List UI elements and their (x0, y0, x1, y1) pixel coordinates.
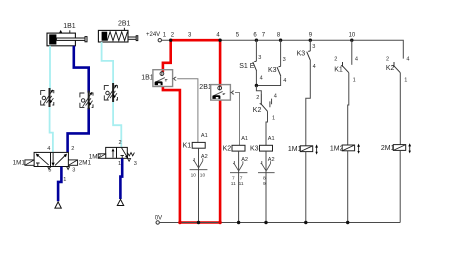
svg-text:4: 4 (47, 146, 50, 152)
svg-text:1: 1 (353, 77, 356, 83)
switch S1 contact arm (253, 61, 257, 71)
wire: relay K1 coil to 0V rail (198, 148, 200, 222)
wire: node down-right to contact K2 pin 2 (256, 86, 261, 95)
junction dot col9 (309, 39, 312, 42)
wire: relay K2 coil to 0V rail (238, 151, 240, 222)
cylinder 2B1 rod end plate (136, 36, 138, 41)
valve 1V (5/2-way double solenoid) body (34, 152, 68, 166)
svg-text:A1: A1 (201, 133, 208, 139)
solenoid coil 2M1 box (393, 145, 405, 151)
valve 2V exhaust triangle port 3 (128, 159, 131, 162)
svg-text:A2: A2 (201, 154, 208, 160)
svg-text:2B1: 2B1 (199, 84, 212, 91)
svg-text:1B1: 1B1 (63, 23, 76, 30)
svg-text:0V: 0V (155, 215, 162, 221)
tube cyan: throttle V3 down to valve 2V port 2 (113, 100, 121, 147)
valve 1V right solenoid 2M1 (68, 160, 77, 165)
svg-text:5: 5 (48, 168, 51, 174)
cylinder 1B1 label anchor stub (69, 30, 71, 33)
red wire: rail segment col2 to col4 (171, 39, 220, 42)
cylinder 2B1 piston rod (128, 37, 137, 39)
red wire: col4 down to sensor 2B1 plus (219, 40, 222, 86)
junction dot 0V K1 (197, 221, 200, 224)
svg-text:2: 2 (119, 140, 122, 146)
contact K3 col8 arm (277, 66, 281, 76)
wire: contact K1 common down to solenoid 1M2 (348, 73, 349, 145)
svg-text:8: 8 (263, 176, 266, 182)
relay coil K3 box (260, 145, 273, 151)
svg-text:K1: K1 (183, 143, 192, 150)
svg-text:4: 4 (283, 78, 286, 84)
svg-text:K2: K2 (253, 107, 262, 114)
valve 2V return spring (127, 153, 134, 156)
compressed air supply triangle 2 (117, 199, 123, 205)
contact K1 changeover arm (343, 66, 349, 73)
wire: contact K2 common down to solenoid 2M1 (399, 73, 401, 145)
junction dot 0V red left (178, 221, 181, 224)
wire: contact K3 col8 down and left to S1 node (256, 76, 280, 85)
svg-text:3: 3 (258, 55, 261, 61)
svg-text:2: 2 (386, 56, 389, 62)
cylinder 2B1 body (98, 30, 128, 42)
svg-text:2M1: 2M1 (381, 145, 395, 152)
valve 1V right square flow arrow port1 to port2 (55, 155, 66, 165)
wire: contact K3 col9 down to solenoid 1M1 (306, 61, 311, 146)
valve 2V left square vertical arrow (112, 151, 114, 158)
contact K1 changeover pin4 wire (351, 40, 353, 65)
relay K2 contact assignment symbol (233, 161, 243, 171)
throttle check valve V2 (80, 90, 93, 109)
svg-text:10: 10 (200, 173, 206, 179)
junction node S1/K3 (255, 84, 258, 87)
svg-text:7: 7 (240, 176, 243, 182)
svg-text:2: 2 (334, 56, 337, 62)
contact K2 right changeover arm (394, 66, 400, 73)
relay coil K2 box (232, 145, 245, 151)
contact K1 changeover pin2 stub (341, 62, 343, 66)
svg-text:K3: K3 (268, 67, 277, 74)
svg-text:2: 2 (71, 146, 74, 152)
svg-text:11: 11 (239, 181, 244, 187)
compressed air supply triangle 1 (55, 202, 61, 208)
junction dot 0V red right (218, 221, 221, 224)
svg-text:3: 3 (72, 168, 75, 174)
tube navy: throttle V2 down to valve 1V port 2 (68, 108, 89, 153)
svg-text:4: 4 (274, 94, 277, 100)
svg-text:1: 1 (404, 77, 407, 83)
svg-text:K1: K1 (334, 66, 343, 73)
valve 1V exhaust triangle port 3 (67, 167, 70, 170)
sensor 1B1 contact arm (156, 78, 165, 82)
sensor 1B1 output dashes (165, 80, 168, 81)
svg-text:1: 1 (272, 116, 275, 122)
wire: solenoid 2M1 to 0V rail (399, 150, 401, 222)
svg-text:K2: K2 (386, 65, 395, 72)
svg-text:1: 1 (63, 177, 66, 183)
wire: sensor 2B1 output to relay K2 coil A1 (235, 93, 240, 146)
tube navy: cylinder 1B1 right port to throttle V2 (74, 46, 89, 93)
sensor 1B1 magnet symbol (155, 81, 163, 85)
sensor 2B1 output dashes (223, 93, 226, 94)
0V terminal (156, 221, 159, 224)
switch S1 branch wire lower (255, 71, 257, 86)
relay coil K1 box (192, 142, 205, 148)
throttle check valve V3 (104, 83, 117, 102)
svg-text:+24V: +24V (146, 32, 160, 38)
tube navy: valve 1V port 1 to supply (58, 167, 61, 202)
valve 2V solenoid 1M2 (98, 154, 106, 159)
sensor 1B1 output terminal hook (173, 77, 177, 80)
valve 1V left square flow arrow (37, 155, 48, 165)
svg-text:1M2: 1M2 (330, 145, 344, 152)
contact K3 col9 wire upper (309, 40, 311, 51)
contact K2 right changeover pin2 stub (393, 62, 395, 66)
+24V terminal (158, 39, 161, 42)
svg-text:A1: A1 (268, 136, 275, 142)
svg-text:4: 4 (260, 76, 263, 82)
junction dot 0V K3 (264, 221, 267, 224)
contact K2 changeover arm (261, 104, 267, 111)
svg-text:1M2: 1M2 (89, 153, 102, 160)
svg-text:1B1: 1B1 (141, 75, 154, 82)
red wire: col2 down to sensor 1B1 plus (163, 40, 171, 72)
junction dot col4 (218, 39, 221, 42)
svg-text:11: 11 (231, 181, 236, 187)
switch S1 branch wire upper (255, 40, 257, 61)
tube cyan: throttle V1 down to valve 1V port 4 (50, 105, 53, 152)
PNEUMATIC SECTION (13, 21, 138, 208)
sensor 1B1 reed contact circle (160, 72, 164, 76)
sensor 2B1 magnet symbol (212, 95, 220, 99)
svg-text:A1: A1 (241, 136, 248, 142)
svg-text:S1 E: S1 E (239, 63, 255, 70)
sensor 2B1 reed contact circle (218, 86, 222, 90)
solenoid coil 1M1 box (300, 146, 312, 152)
tube cyan: cylinder 1B1 left port down to throttle V1 (49, 46, 51, 90)
red wire: 0V rail segment (180, 221, 220, 224)
valve 1V left square blocked port T (36, 163, 40, 167)
svg-text:1M1: 1M1 (13, 160, 26, 167)
wire: solenoid 1M2 to 0V rail (347, 151, 349, 223)
junction dot col8 (279, 39, 282, 42)
svg-text:2M1: 2M1 (79, 160, 92, 167)
red wire: sensor 1B1 minus down to 0V rail (163, 87, 180, 223)
valve 2V blocked port 1 T (121, 155, 124, 158)
cylinder 2B1 piston (102, 32, 108, 41)
throttle check valve V1 (41, 88, 54, 107)
junction dot col10 (350, 39, 353, 42)
svg-text:4: 4 (313, 64, 316, 70)
ELECTRICAL SECTION (141, 32, 411, 224)
cylinder 1B1 body (47, 33, 75, 46)
cylinder 1B1 rod end plate (85, 37, 87, 42)
sensor 2B1 contact arm (214, 91, 223, 95)
valve 1V exhaust triangle port 5 (48, 167, 51, 170)
svg-text:9: 9 (263, 181, 266, 187)
svg-text:2B1: 2B1 (118, 21, 131, 28)
junction dot col6 (255, 39, 258, 42)
svg-text:3: 3 (312, 44, 315, 50)
svg-text:A2: A2 (268, 157, 275, 163)
relay K1 contact assignment symbol (193, 158, 203, 168)
svg-text:4: 4 (406, 56, 409, 62)
svg-text:10: 10 (349, 32, 356, 38)
tube cyan: cylinder 2B1 port down-right to throttle V3 (102, 42, 114, 85)
valve 2V right square flow path 2 to 3 (122, 148, 127, 157)
svg-text:A2: A2 (241, 157, 248, 163)
svg-text:1: 1 (118, 161, 121, 167)
tube navy: valve 2V port 1 to supply (120, 158, 122, 199)
junction dot col2 (169, 39, 172, 42)
cylinder 2B1 label anchor stub (123, 28, 125, 31)
junction dot 0V 1M2 (346, 221, 349, 224)
cylinder 2B1 return spring (107, 32, 127, 41)
wire: solenoid 1M1 to 0V rail (305, 152, 307, 223)
sensor 2B1 output terminal hook (230, 91, 234, 94)
cylinder 1B1 sensor position marker triangle (59, 30, 62, 33)
solenoid coil 1M2 actuation icon (358, 146, 360, 152)
solenoid coil 2M1 actuation icon (409, 146, 411, 152)
svg-text:3: 3 (283, 57, 286, 63)
cylinder 1B1 piston (49, 34, 56, 44)
solenoid coil 1M2 box (342, 145, 354, 151)
sensor 1B1 box (153, 70, 173, 87)
junction dot 0V K2 (237, 221, 240, 224)
junction dot 0V 1M1 (304, 221, 307, 224)
svg-text:10: 10 (191, 173, 197, 179)
wire: contact K2 common down to relay K3 coil A1 (266, 111, 268, 145)
contact K3 col8 wire upper (280, 40, 282, 66)
solenoid coil 1M1 actuation icon (316, 147, 318, 153)
valve 1V left solenoid 1M1 (25, 160, 34, 165)
svg-text:3: 3 (134, 161, 137, 167)
svg-text:K2: K2 (223, 146, 232, 153)
svg-text:2: 2 (256, 95, 259, 101)
sensor 2B1 box (211, 85, 231, 101)
svg-text:1M1: 1M1 (288, 146, 302, 153)
contact K3 col9 arm (307, 51, 311, 61)
wire: sensor 1B1 output to relay K1 coil A1 (177, 79, 198, 143)
red wire: sensor 2B1 minus down to 0V rail (219, 100, 222, 222)
svg-text:4: 4 (355, 56, 358, 62)
svg-text:7: 7 (232, 176, 235, 182)
relay K3 contact assignment symbol (261, 161, 271, 171)
cylinder 1B1 piston rod (56, 38, 85, 40)
valve 2V (3/2-way solenoid spring return) body (106, 147, 128, 158)
contact K2 changeover pin2 stub (260, 94, 262, 104)
valve 1V right square vertical arrow port4 to port5 (52, 153, 54, 163)
0V rail wire (159, 222, 400, 224)
svg-text:K3: K3 (297, 50, 306, 57)
+24V rail wire (162, 40, 404, 58)
svg-text:K3: K3 (250, 146, 259, 153)
contact K2 changeover pin4 dead stub (270, 99, 272, 108)
wire: relay K3 coil to 0V rail (265, 151, 267, 222)
